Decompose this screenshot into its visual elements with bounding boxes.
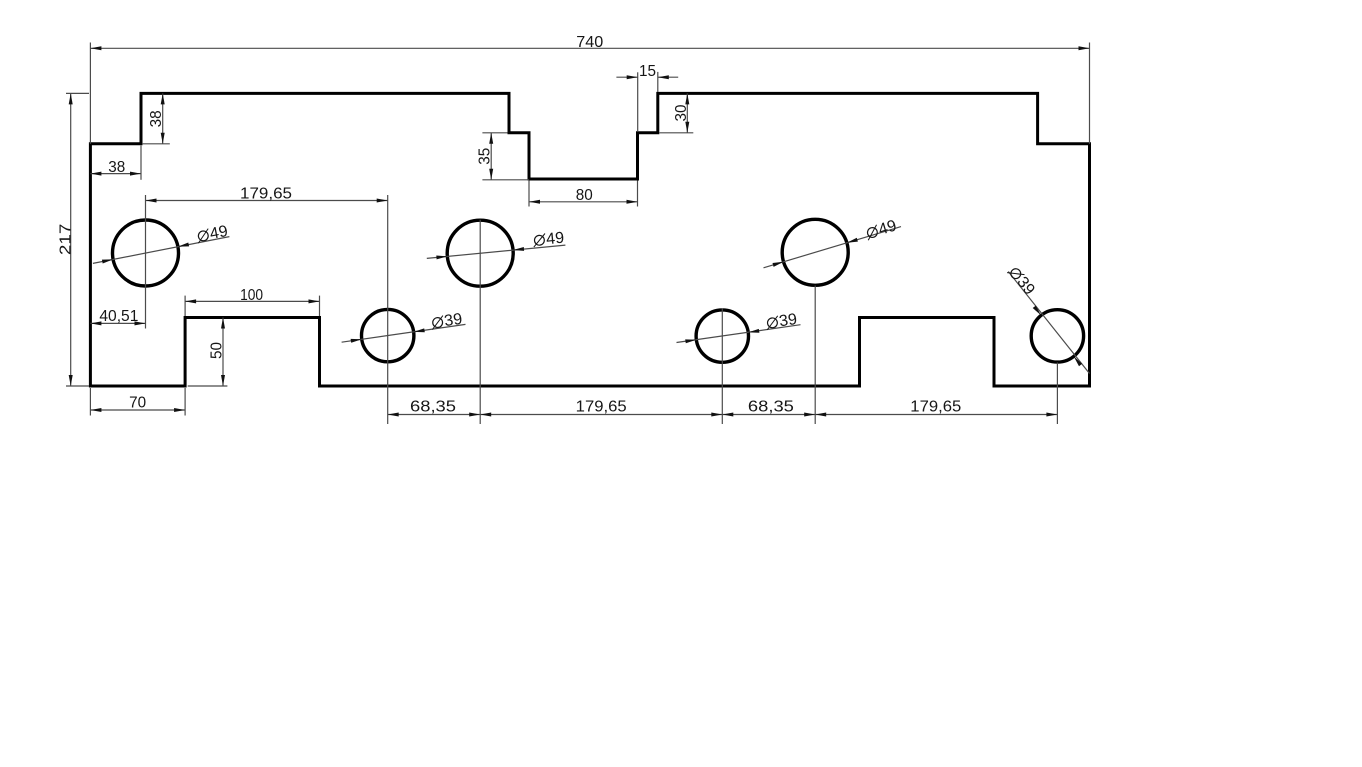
svg-text:38: 38: [108, 159, 125, 176]
hole 1 diameter 49: [113, 220, 179, 286]
dimension 15 top notch step: [616, 63, 678, 131]
diameter leader hole 4: Ø39: [342, 311, 466, 343]
svg-text:217: 217: [57, 224, 74, 256]
dimension 740 top: [90, 34, 1089, 144]
svg-text:49: 49: [208, 223, 229, 243]
dimension 217 left: [57, 93, 89, 386]
dimension 179,65 bottom first: [480, 398, 722, 416]
svg-text:68,35: 68,35: [410, 398, 456, 415]
svg-text:100: 100: [240, 287, 263, 304]
dimension 70 bottom-left: [90, 388, 185, 416]
svg-text:38: 38: [148, 110, 165, 127]
svg-text:50: 50: [209, 342, 226, 359]
svg-text:68,35: 68,35: [748, 398, 794, 415]
dimension 50 bottom notch depth: [188, 318, 228, 387]
svg-text:179,65: 179,65: [910, 398, 961, 415]
svg-text:80: 80: [576, 187, 593, 204]
dimension 68,35 bottom first: [388, 398, 481, 416]
dimension 38 horizontal top-left: [90, 146, 141, 180]
svg-text:35: 35: [477, 148, 494, 165]
dimension 179,65 bottom second: [815, 398, 1057, 416]
dimension 80 notch bottom width: [529, 181, 638, 207]
dimension 40,51: [90, 308, 145, 326]
diameter leader hole 3: Ø49: [764, 217, 902, 267]
diameter leader hole 1: Ø49: [93, 223, 230, 264]
diameter leader hole 2: Ø49: [427, 230, 566, 260]
svg-text:740: 740: [576, 34, 603, 51]
dimension 38 vertical top-left: [143, 93, 170, 143]
hole 3 diameter 49: [782, 219, 848, 285]
hole 4 diameter 39: [362, 309, 414, 361]
svg-text:39: 39: [778, 311, 798, 330]
svg-text:49: 49: [545, 230, 565, 249]
diameter leader hole 6: Ø39: [1005, 264, 1089, 374]
hole 2 diameter 49: [447, 220, 513, 286]
hole 6 diameter 39: [1031, 310, 1083, 362]
svg-text:15: 15: [639, 63, 656, 80]
diameter leader hole 5: Ø39: [677, 311, 801, 343]
svg-text:70: 70: [129, 395, 146, 412]
svg-text:40,51: 40,51: [99, 308, 138, 325]
dimension 35 notch left step depth: [477, 133, 529, 180]
svg-text:179,65: 179,65: [240, 185, 292, 202]
dimension chain bottom: extension lines from hole centers: [480, 220, 1057, 424]
dimension 179,65 upper: [146, 185, 388, 424]
dimension 30 notch right step depth: [660, 93, 694, 132]
dimension 68,35 bottom second: [722, 398, 815, 416]
part outline: [90, 93, 1089, 386]
hole 5 diameter 39: [696, 310, 748, 362]
svg-text:39: 39: [443, 311, 463, 330]
svg-text:179,65: 179,65: [576, 398, 627, 415]
svg-text:30: 30: [673, 104, 690, 121]
dimension 100 bottom notch: [185, 287, 319, 316]
